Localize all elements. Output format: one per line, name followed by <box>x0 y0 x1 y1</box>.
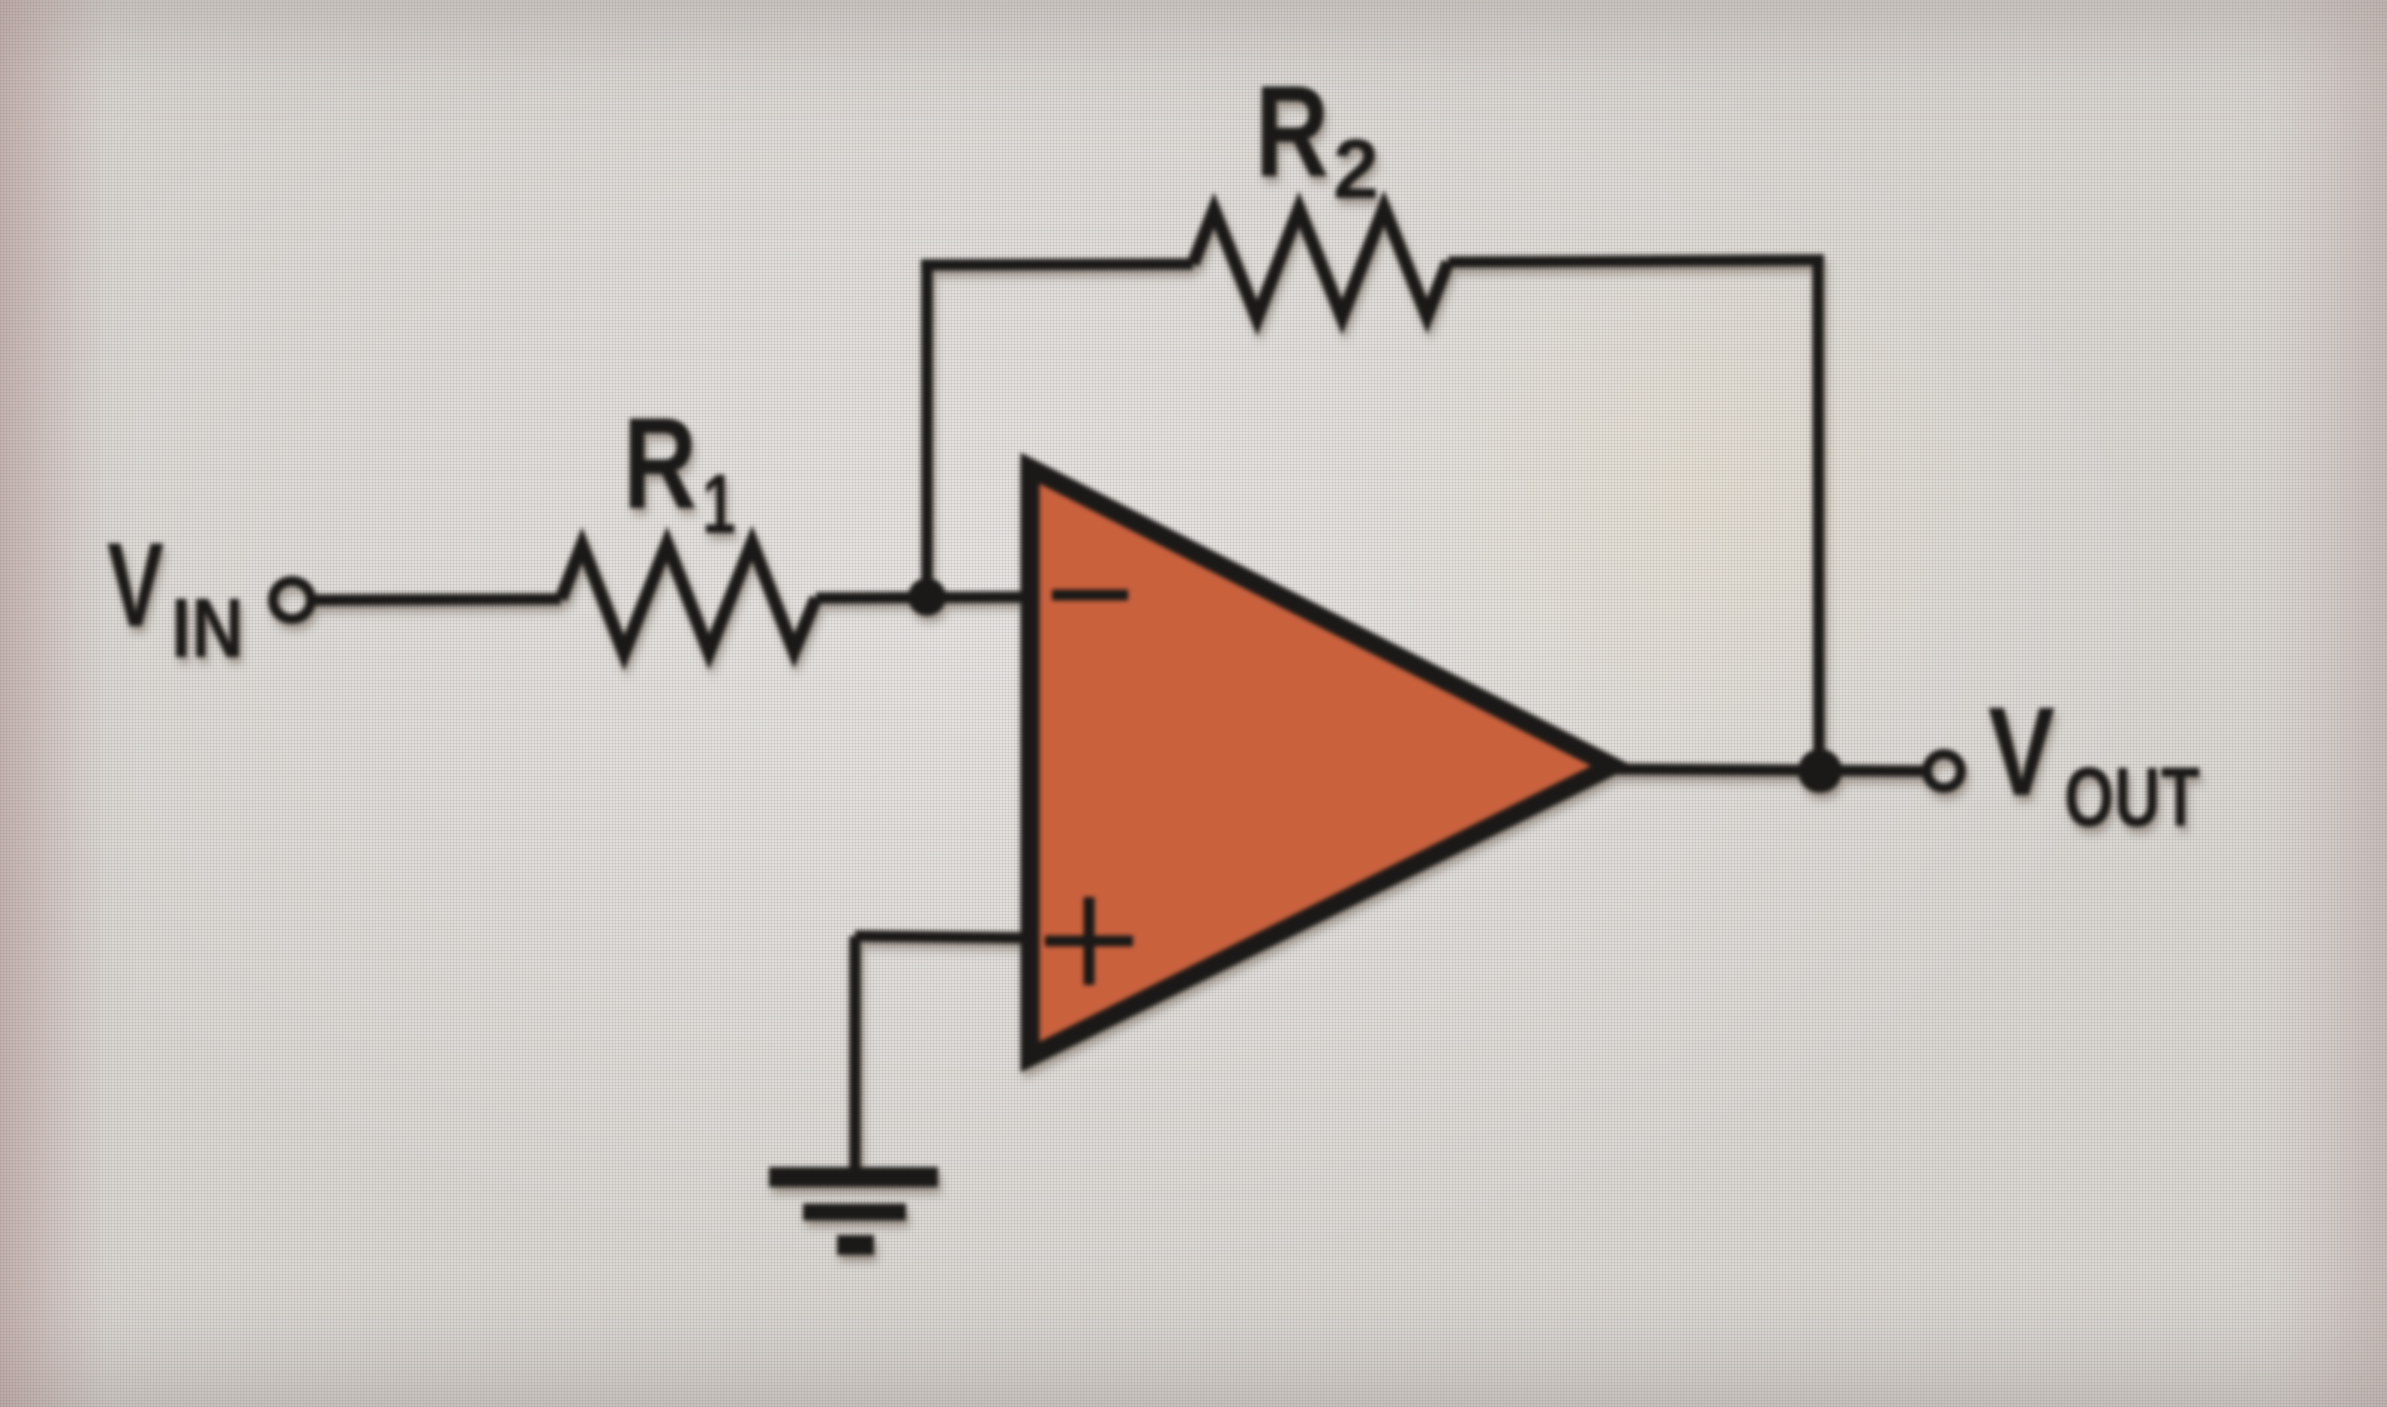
wire output <box>1612 769 1925 771</box>
wire feedback left vertical <box>921 265 933 597</box>
svg-text:IN: IN <box>171 581 244 675</box>
wire VIN to R1 <box>311 599 561 600</box>
wire non-inverting input <box>855 936 1030 938</box>
terminal VOUT (open circle) <box>1927 754 1961 788</box>
svg-text:R: R <box>623 390 697 536</box>
resistor R2 <box>1193 208 1448 318</box>
label VOUT <box>1988 681 2200 844</box>
terminal VIN (open circle) <box>273 581 311 619</box>
wire to ground vertical <box>849 936 861 1177</box>
wire feedback top left segment <box>921 264 1193 265</box>
ground bar 3 <box>837 1235 874 1255</box>
svg-text:2: 2 <box>1333 122 1379 216</box>
svg-text:1: 1 <box>702 457 736 551</box>
svg-text:OUT: OUT <box>2064 750 2200 844</box>
wire R1 to node A <box>816 597 1030 598</box>
wire feedback right vertical <box>1818 260 1819 771</box>
node B (output junction) <box>1798 749 1842 793</box>
plus sign (non-inverting input marker) <box>1045 897 1133 985</box>
ground bar 1 <box>769 1167 938 1187</box>
node A (inverting input junction) <box>908 578 946 616</box>
svg-text:V: V <box>107 518 164 652</box>
label VIN <box>107 518 244 675</box>
ground bar 2 <box>803 1204 906 1221</box>
wire feedback top right segment <box>1448 260 1824 262</box>
minus sign (inverting input marker) <box>1052 590 1128 601</box>
svg-text:V: V <box>1988 681 2055 822</box>
resistor R1 <box>561 543 816 653</box>
svg-text:R: R <box>1255 58 1329 204</box>
label R1 <box>623 390 736 551</box>
op-amp U1 <box>1030 468 1612 1057</box>
label R2 <box>1255 58 1379 216</box>
